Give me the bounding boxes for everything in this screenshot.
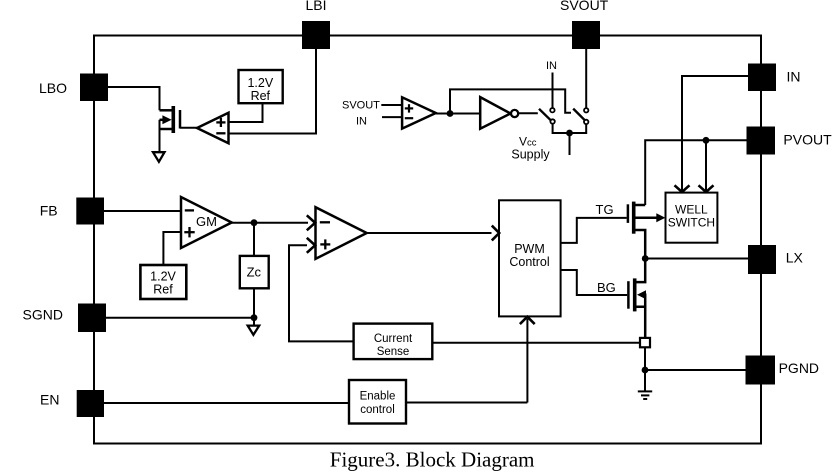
wire current sense to U2 plus input bbox=[289, 245, 354, 341]
1.2V Ref box (FB) bbox=[140, 265, 186, 299]
arrowhead into well switch (right) bbox=[699, 185, 714, 192]
current sense square bbox=[640, 338, 650, 347]
wire IN to S1 top contact bbox=[552, 73, 554, 108]
wire enable to PWM bottom input bbox=[526, 319, 528, 403]
Current Sense box bbox=[354, 324, 433, 360]
chip outline frame bbox=[94, 36, 761, 444]
GM minus sign bbox=[185, 209, 194, 211]
wire SVOUT pad to S2 top contact bbox=[585, 49, 587, 108]
PADS bbox=[76, 21, 776, 417]
pad LBI bbox=[302, 21, 330, 49]
wire GM plus input to 1.2V Ref bbox=[163, 232, 181, 265]
transistor Q2 (BG) gate bar bbox=[627, 281, 630, 309]
1.2V Ref box (LBO) bbox=[239, 70, 283, 103]
svg-text:Control: Control bbox=[509, 255, 549, 269]
wire IN pad to well switch bbox=[682, 76, 748, 191]
pad LBO bbox=[80, 74, 108, 102]
wire feedback over inverter bbox=[450, 89, 571, 113]
wire FB pad to GM minus input bbox=[104, 210, 181, 212]
svg-text:SVOUT: SVOUT bbox=[560, 0, 609, 13]
svg-text:LBI: LBI bbox=[306, 0, 327, 13]
wire PVOUT pad to TG drain bbox=[645, 140, 746, 205]
pad LX bbox=[748, 245, 776, 274]
U1 minus sign bbox=[216, 132, 225, 134]
earth ground symbol bbox=[638, 391, 652, 399]
svg-text:PVOUT: PVOUT bbox=[783, 132, 832, 148]
switch S1 contacts bbox=[550, 108, 554, 112]
transistor M1 source terminal bbox=[160, 128, 173, 131]
wire gate to comparator output bbox=[180, 127, 198, 129]
wire Zc to SGND node bbox=[253, 288, 255, 320]
svg-text:EN: EN bbox=[40, 392, 59, 408]
svg-text:Sense: Sense bbox=[377, 346, 410, 358]
pad PGND bbox=[746, 356, 776, 385]
op-amp U1 (LBO comparator, left-pointing) bbox=[197, 113, 229, 144]
wire IN label to U3 bbox=[382, 116, 402, 118]
wire PVOUT node to well switch bbox=[705, 140, 707, 190]
svg-text:Ref: Ref bbox=[251, 89, 271, 103]
op-amp U2 bbox=[316, 207, 367, 259]
Enable control box bbox=[349, 380, 406, 424]
node Vcc supply bbox=[566, 130, 573, 137]
svg-text:Zc: Zc bbox=[247, 265, 262, 280]
transistor M1 drain terminal bbox=[160, 109, 173, 112]
arrowhead into well switch (left) bbox=[675, 185, 690, 192]
svg-text:TG: TG bbox=[596, 202, 614, 217]
node LX bbox=[642, 255, 649, 262]
inverter U4 bbox=[480, 97, 510, 129]
svg-text:WELL: WELL bbox=[675, 202, 708, 216]
svg-text:BG: BG bbox=[597, 280, 616, 295]
wire PGND node to pad bbox=[645, 369, 746, 371]
wire SVOUT label to U3 bbox=[381, 104, 402, 106]
wire Vcc supply stub bbox=[569, 133, 571, 155]
WELL SWITCH box bbox=[666, 193, 718, 243]
op-amp U3 bbox=[402, 97, 436, 128]
Q2 bulk arrow bbox=[637, 290, 646, 299]
node PVOUT wire bbox=[703, 137, 710, 144]
wire U2 output to PWM control bbox=[367, 232, 492, 234]
svg-text:IN: IN bbox=[546, 60, 557, 72]
U1 plus sign bbox=[216, 118, 225, 134]
svg-text:Current: Current bbox=[374, 333, 413, 345]
switch S1 blade bbox=[539, 109, 551, 120]
inverter U4 bubble bbox=[511, 110, 518, 117]
wire current sense to Q2 source square bbox=[432, 342, 640, 344]
transistor Q1 channel bar bbox=[632, 202, 636, 234]
node PGND bbox=[642, 367, 649, 374]
transistor M1 bulk arrow bbox=[162, 115, 171, 124]
op-amp GM bbox=[181, 197, 232, 248]
svg-text:PGND: PGND bbox=[779, 360, 819, 376]
wire S2 bottom contact to common node bbox=[570, 124, 587, 133]
GM plus sign bbox=[184, 231, 194, 233]
svg-text:SGND: SGND bbox=[23, 307, 63, 323]
pad PVOUT bbox=[747, 127, 776, 155]
wire U1 minus input from LBI bbox=[229, 49, 317, 134]
svg-text:FB: FB bbox=[40, 203, 58, 219]
wire PWM BG output to Q2 gate bbox=[561, 270, 628, 295]
wire square to PGND node bbox=[644, 347, 646, 370]
svg-text:SVOUT: SVOUT bbox=[342, 99, 380, 111]
U2 plus sign bbox=[320, 243, 330, 245]
Q2 source terminal bbox=[635, 307, 646, 338]
pad SVOUT bbox=[572, 21, 600, 49]
wire U3 output to inverter bbox=[436, 113, 480, 115]
pad SGND bbox=[78, 304, 106, 333]
ground symbol (M1 source) bbox=[153, 152, 165, 162]
PWM Control box bbox=[499, 200, 561, 316]
wire node to earth ground bbox=[644, 370, 646, 391]
wire LBO pad to M1 drain bbox=[108, 87, 160, 110]
Q2 bulk terminal bbox=[644, 295, 645, 307]
transistor Q2 channel bar bbox=[633, 278, 637, 311]
pad EN bbox=[77, 390, 104, 417]
pad IN bbox=[748, 64, 776, 92]
switch S2 contacts bbox=[584, 108, 588, 112]
wire bubble to switch S1 bbox=[518, 112, 538, 114]
ground symbol (SGND) bbox=[248, 326, 260, 335]
Q1 bulk arrow into well switch bbox=[656, 213, 665, 222]
wire PWM TG output to Q1 gate bbox=[561, 218, 627, 243]
U3 minus sign bbox=[405, 117, 413, 119]
wire LX node to pad bbox=[645, 258, 748, 260]
U3 plus sign bbox=[405, 107, 413, 109]
svg-text:Enable: Enable bbox=[360, 391, 396, 403]
svg-text:SWITCH: SWITCH bbox=[668, 215, 715, 229]
svg-text:Ref: Ref bbox=[153, 282, 173, 296]
arrowhead U2 plus input bbox=[307, 238, 315, 253]
Q1 bulk terminal bbox=[636, 216, 659, 219]
svg-text:Supply: Supply bbox=[511, 147, 550, 161]
svg-text:LBO: LBO bbox=[39, 80, 67, 96]
svg-text:LX: LX bbox=[786, 250, 804, 266]
svg-text:GM: GM bbox=[196, 214, 217, 229]
svg-text:1.2V: 1.2V bbox=[247, 76, 273, 90]
svg-text:control: control bbox=[360, 404, 395, 416]
svg-text:IN: IN bbox=[787, 69, 801, 85]
wire SGND pad to node bbox=[106, 317, 254, 319]
node U3 output bbox=[447, 110, 454, 117]
wire S1 bottom contact to common node bbox=[553, 124, 570, 133]
Q1 source terminal bbox=[634, 230, 646, 259]
wire GM output to comparator bbox=[232, 222, 308, 224]
transistor M1 gate bar bbox=[179, 110, 182, 129]
wire enable control to PWM bbox=[406, 402, 527, 404]
transistor M1 channel bar bbox=[172, 106, 176, 133]
wire M1 source to ground bbox=[159, 120, 161, 152]
wire GM output down to Zc bbox=[253, 223, 255, 256]
Q1 drain terminal bbox=[634, 204, 646, 207]
switch S2 blade bbox=[573, 109, 586, 122]
svg-text:IN: IN bbox=[356, 115, 367, 127]
arrowhead U2 minus input bbox=[307, 215, 315, 230]
U2 minus sign bbox=[320, 221, 330, 223]
arrowhead into PWM bottom bbox=[520, 317, 535, 324]
pad FB bbox=[76, 198, 104, 225]
transistor Q1 (TG) gate bar bbox=[627, 204, 630, 223]
arrowhead into PWM control bbox=[492, 226, 499, 241]
Q2 drain terminal bbox=[635, 259, 646, 283]
transistor M1 bulk terminal bbox=[160, 119, 165, 122]
node SGND junction bbox=[251, 314, 258, 321]
svg-text:Figure3. Block Diagram: Figure3. Block Diagram bbox=[330, 448, 535, 472]
wire node to ground bbox=[253, 318, 255, 326]
node GM output bbox=[251, 219, 258, 226]
wire EN pad to enable control bbox=[104, 402, 349, 404]
Zc box bbox=[240, 256, 269, 288]
wire Ref to U1 plus input bbox=[229, 103, 263, 122]
